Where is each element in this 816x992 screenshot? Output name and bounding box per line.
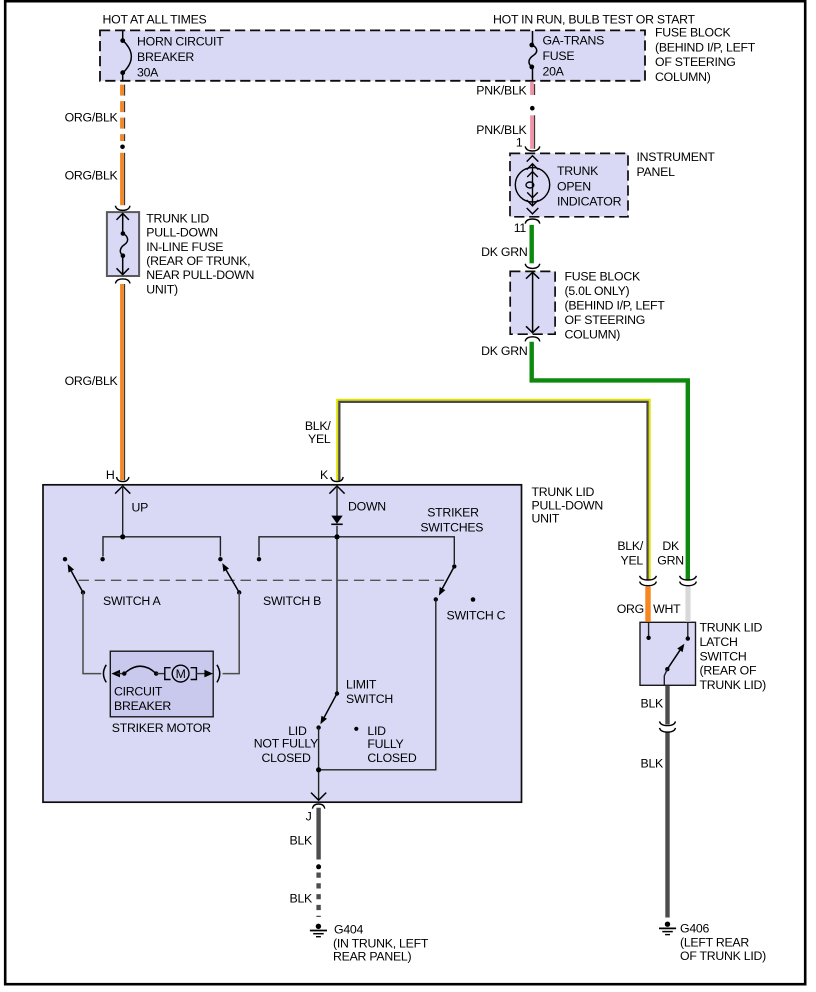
svg-text:SWITCH C: SWITCH C (447, 608, 506, 622)
ground G404 (310, 924, 327, 937)
svg-text:IN-LINE FUSE: IN-LINE FUSE (146, 240, 223, 254)
svg-text:REAR PANEL): REAR PANEL) (333, 950, 411, 964)
switch C blade (442, 566, 454, 588)
latch switch left contact stub (648, 623, 650, 637)
svg-text:CLOSED: CLOSED (262, 751, 311, 765)
connector pin 11 (indicator bottom) (525, 219, 540, 224)
svg-text:PULL-DOWN: PULL-DOWN (146, 226, 218, 240)
svg-text:SWITCH: SWITCH (346, 692, 393, 706)
svg-text:FUSE BLOCK: FUSE BLOCK (655, 26, 731, 40)
svg-text:TRUNK LID: TRUNK LID (532, 485, 595, 499)
wire ORG/BLK solid from in-line fuse to terminal H (122, 284, 125, 480)
fuse GA-TRANS 20A symbol (529, 31, 537, 81)
splice node S (BLK) (316, 864, 321, 869)
node H rail junction (120, 534, 125, 539)
svg-text:LATCH: LATCH (700, 635, 738, 649)
svg-text:FUSE: FUSE (543, 49, 575, 63)
wire limit switch contact to terminal J (318, 728, 320, 800)
connector at in-line fuse bottom (115, 279, 130, 284)
wire BLK/YEL from terminal K to latch switch connector (337, 400, 650, 581)
wire DK GRN from 5.0L fuse block to latch switch connector (532, 342, 688, 580)
circuit breaker arc (122, 671, 126, 675)
svg-text:TRUNK LID: TRUNK LID (146, 211, 209, 225)
svg-text:(BEHIND I/P, LEFT: (BEHIND I/P, LEFT (655, 40, 756, 54)
node bottom rail junction (316, 767, 321, 772)
svg-text:NOT FULLY: NOT FULLY (254, 736, 318, 750)
svg-text:BLK: BLK (641, 757, 665, 771)
svg-text:11: 11 (514, 221, 527, 235)
svg-text:DK GRN: DK GRN (481, 245, 527, 259)
connector terminal K (331, 477, 343, 482)
svg-text:LIMIT: LIMIT (346, 678, 377, 692)
svg-text:BLK/: BLK/ (305, 419, 331, 433)
wire switch A pivot to motor left (83, 593, 101, 674)
connector at 5.0L fuse block top (525, 264, 540, 269)
svg-text:G404: G404 (334, 923, 363, 937)
wire BLK from terminal J (316, 808, 320, 860)
connector C3 on BLK below latch switch (660, 721, 676, 732)
svg-text:OF STEERING: OF STEERING (565, 313, 646, 327)
limit switch pivot (335, 691, 339, 695)
switch C contacts (452, 564, 456, 568)
limit switch blade (324, 694, 337, 718)
svg-text:PULL-DOWN: PULL-DOWN (532, 498, 604, 512)
svg-text:STRIKER: STRIKER (427, 505, 479, 519)
splice node S (ORG/BLK) (120, 145, 125, 150)
svg-text:H: H (106, 468, 115, 482)
svg-text:GRN: GRN (657, 553, 684, 567)
svg-text:OF STEERING: OF STEERING (655, 55, 736, 69)
motor arrow right (204, 670, 213, 678)
svg-text:SWITCH B: SWITCH B (263, 594, 321, 608)
svg-text:HOT IN RUN, BULB TEST OR START: HOT IN RUN, BULB TEST OR START (493, 13, 696, 27)
connector terminal H (117, 477, 129, 482)
svg-text:PNK/BLK: PNK/BLK (476, 84, 527, 98)
motor coupling paren left (103, 665, 106, 683)
svg-text:YEL: YEL (308, 432, 331, 446)
ground G406 (659, 922, 676, 935)
switch B blade (226, 570, 239, 592)
latch switch pivot wire to box bottom (664, 669, 667, 685)
svg-text:GA-TRANS: GA-TRANS (543, 34, 605, 48)
wire WHT to latch switch (685, 587, 690, 622)
UP rail wire (103, 537, 220, 557)
svg-text:(REAR OF TRUNK,: (REAR OF TRUNK, (146, 254, 250, 268)
svg-text:M: M (176, 667, 186, 681)
motor coupling paren right (217, 665, 220, 683)
terminal H arrow into unit (115, 486, 130, 494)
svg-text:30A: 30A (137, 65, 159, 79)
mechanical linkage dashed line (79, 579, 445, 581)
DOWN rail wire (259, 537, 454, 564)
svg-text:BLK: BLK (290, 834, 314, 848)
svg-text:INSTRUMENT: INSTRUMENT (637, 150, 716, 164)
svg-text:OPEN: OPEN (557, 179, 591, 193)
svg-text:OF TRUNK LID): OF TRUNK LID) (680, 949, 766, 963)
svg-text:BREAKER: BREAKER (137, 50, 194, 64)
svg-text:WHT: WHT (653, 602, 681, 616)
svg-text:STRIKER MOTOR: STRIKER MOTOR (112, 721, 211, 735)
svg-text:(5.0L ONLY): (5.0L ONLY) (565, 284, 630, 298)
svg-text:HOT AT ALL TIMES: HOT AT ALL TIMES (103, 13, 207, 27)
svg-text:PANEL: PANEL (637, 165, 676, 179)
svg-text:SWITCHES: SWITCHES (420, 520, 483, 534)
trunk lid pull-down in-line fuse box (107, 212, 139, 276)
switch A blade (71, 571, 83, 592)
wire to motor M (156, 673, 164, 675)
wire ORG/BLK solid to in-line fuse (122, 153, 125, 205)
fuse block 5.0L box (510, 271, 555, 334)
trunk lid latch switch box (640, 622, 696, 685)
diode CR1 (331, 516, 342, 524)
svg-text:J: J (306, 810, 312, 824)
splice node S (PNK/BLK) (530, 106, 535, 111)
svg-text:ORG/BLK: ORG/BLK (65, 111, 119, 125)
connector terminal J (312, 804, 324, 809)
wire switch C pivot down to bottom rail (319, 599, 436, 769)
wire PNK/BLK upper (from GA-TRANS fuse) (532, 82, 535, 96)
svg-text:ORG/BLK: ORG/BLK (65, 374, 119, 388)
node lid fully closed contact (354, 727, 358, 731)
wire DK GRN from pin 11 to 5.0L fuse block (530, 225, 534, 263)
svg-text:SWITCH A: SWITCH A (103, 594, 161, 608)
svg-text:BREAKER: BREAKER (114, 699, 171, 713)
wire ORG to latch switch (645, 587, 650, 622)
svg-text:COLUMN): COLUMN) (565, 327, 621, 341)
svg-text:1: 1 (516, 136, 523, 150)
svg-text:CLOSED: CLOSED (367, 751, 416, 765)
terminal K arrow into unit (329, 486, 344, 494)
svg-text:BLK/: BLK/ (617, 539, 643, 553)
svg-text:(IN TRUNK, LEFT: (IN TRUNK, LEFT (333, 937, 429, 951)
5.0L fuse block internal wire with arrows (526, 272, 539, 332)
wire from H to UP rail (122, 486, 124, 537)
wire from diode to limit switch (336, 526, 338, 694)
svg-text:G406: G406 (680, 922, 709, 936)
trunk open indicator box (instrument panel) (510, 153, 628, 216)
connector pin 1 (indicator top) (525, 146, 540, 151)
latch switch blade (667, 650, 680, 669)
svg-text:20A: 20A (543, 65, 565, 79)
wire from K to diode (336, 486, 338, 516)
svg-text:DK GRN: DK GRN (481, 344, 527, 358)
switch A contacts (63, 557, 67, 561)
wire BLK from latch switch to connector (665, 686, 669, 725)
connector C2 on DK GRN to WHT (680, 576, 697, 586)
svg-text:INDICATOR: INDICATOR (557, 194, 622, 208)
svg-text:BLK: BLK (290, 892, 314, 906)
svg-text:HORN CIRCUIT: HORN CIRCUIT (137, 34, 224, 48)
trunk lid pull-down unit box (43, 485, 522, 802)
trunk open indicator lamp symbol (515, 156, 549, 214)
connector at 5.0L fuse block bottom (525, 337, 540, 342)
switch B contacts (218, 557, 222, 561)
wire PNK/BLK lower to pin 1 (532, 115, 535, 149)
svg-text:(REAR OF: (REAR OF (700, 664, 757, 678)
limit switch contact (lid not fully closed) (316, 725, 320, 729)
svg-text:UNIT: UNIT (532, 511, 560, 525)
circuit breaker arrow left (111, 670, 120, 678)
node K rail junction (334, 534, 339, 539)
svg-text:(LEFT REAR: (LEFT REAR (680, 935, 749, 949)
svg-text:FUSE BLOCK: FUSE BLOCK (565, 269, 641, 283)
latch switch right contact stub (687, 623, 689, 638)
svg-text:FULLY: FULLY (367, 737, 403, 751)
svg-text:(BEHIND I/P, LEFT: (BEHIND I/P, LEFT (565, 298, 666, 312)
striker motor / circuit breaker box (110, 651, 213, 717)
svg-text:K: K (320, 468, 329, 482)
horn circuit breaker 30A symbol (123, 31, 132, 81)
svg-text:UP: UP (132, 501, 149, 515)
svg-text:BLK: BLK (641, 697, 665, 711)
svg-text:CIRCUIT: CIRCUIT (114, 685, 163, 699)
connector C1 on BLK/YEL to ORG (640, 576, 657, 586)
svg-text:DK: DK (662, 539, 680, 553)
connector at in-line fuse top (115, 206, 130, 211)
svg-text:UNIT): UNIT) (146, 282, 178, 296)
svg-text:YEL: YEL (621, 553, 644, 567)
svg-text:ORG: ORG (617, 602, 644, 616)
svg-text:COLUMN): COLUMN) (655, 70, 711, 84)
wire ORG/BLK dashed (from horn circuit breaker) (122, 85, 125, 141)
in-line fuse element symbol (117, 214, 129, 275)
svg-text:TRUNK LID: TRUNK LID (700, 621, 763, 635)
wire switch B pivot to motor right (223, 593, 240, 674)
svg-text:TRUNK: TRUNK (557, 164, 599, 178)
svg-text:NEAR PULL-DOWN: NEAR PULL-DOWN (146, 268, 254, 282)
svg-text:TRUNK LID): TRUNK LID) (700, 678, 767, 692)
svg-text:ORG/BLK: ORG/BLK (65, 168, 119, 182)
wire BLK from connector to ground G406 (665, 732, 669, 917)
wire BLK dashed to ground G404 (316, 873, 320, 918)
terminal J arrow out of unit (311, 793, 326, 801)
svg-text:SWITCH: SWITCH (700, 649, 747, 663)
svg-text:DOWN: DOWN (348, 499, 386, 513)
fuse block (top strip, behind I/P) (100, 30, 645, 80)
motor M1 (striker motor) (165, 668, 171, 680)
